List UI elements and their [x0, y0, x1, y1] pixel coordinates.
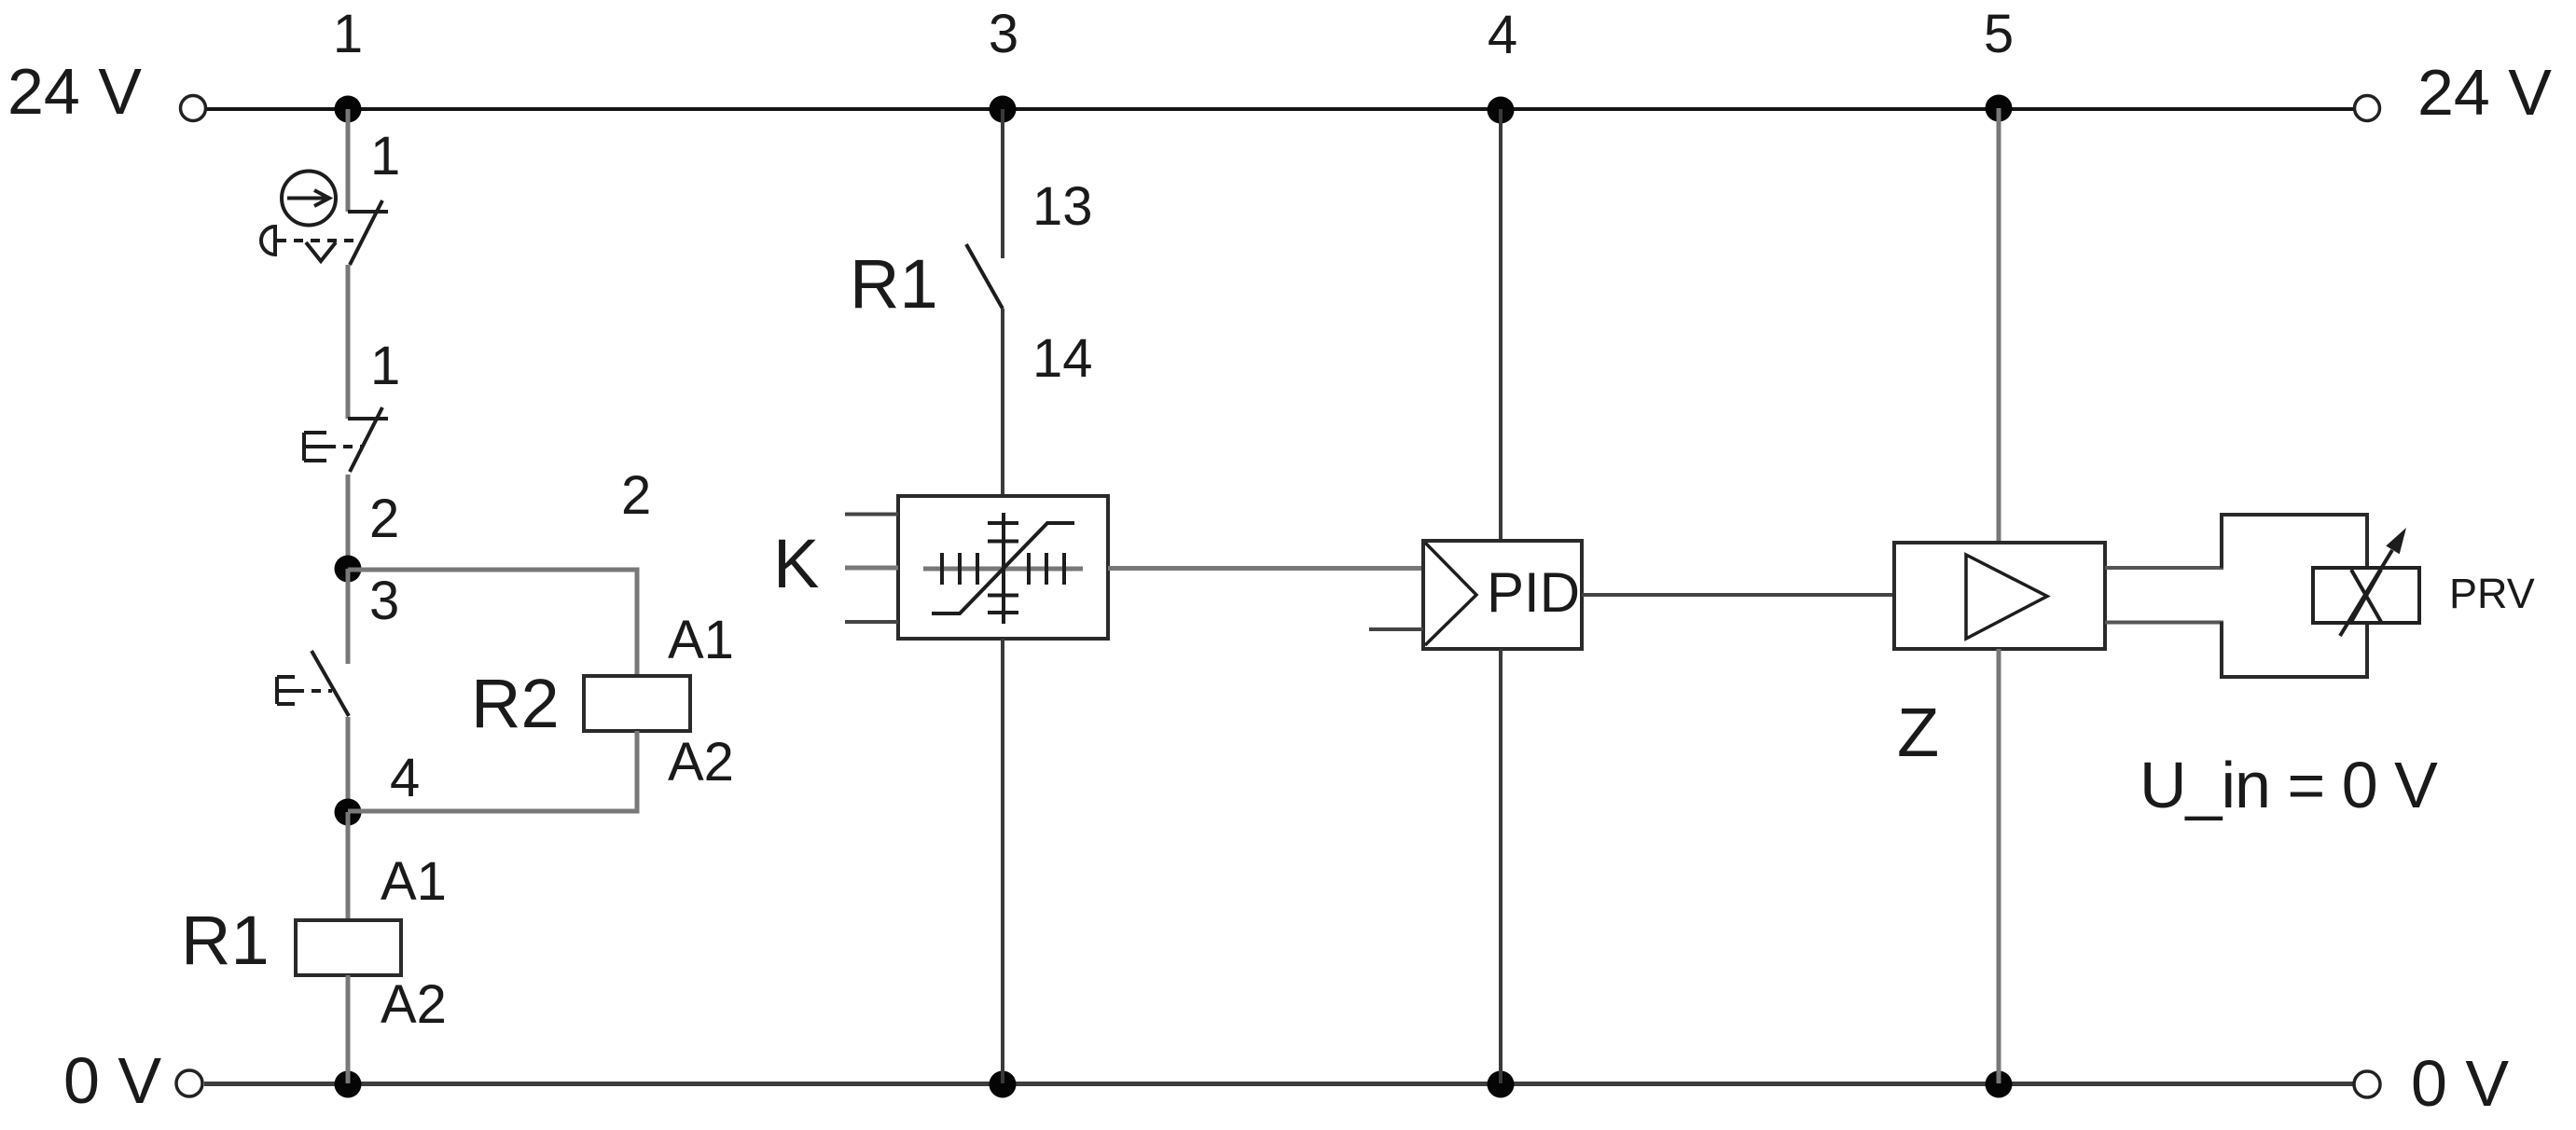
wire node 4 to PID block [1499, 109, 1503, 541]
node 2 junction dot [335, 556, 362, 583]
axis ticks right [1027, 553, 1031, 585]
moving contact blade [350, 200, 382, 265]
flow sensor arrow [287, 197, 328, 200]
moving contact blade [312, 651, 349, 716]
actuation dashed link [277, 239, 362, 242]
wire PID output to amplifier Z [1582, 593, 1894, 597]
node 4 junction dot [1488, 97, 1515, 124]
svg-text:A2: A2 [668, 732, 734, 792]
wire switch E1 to node 2 [346, 475, 351, 569]
relay contact R1 : NO [850, 176, 1093, 389]
amplifier triangle [1966, 555, 2047, 639]
terminal 0V left [176, 1070, 202, 1096]
E actuator symbol [277, 677, 295, 704]
wire node 4 to coil R1 [346, 812, 351, 920]
svg-text:R2: R2 [471, 665, 560, 742]
proportional pressure relief valve PRV [2222, 515, 2535, 677]
relay coil R2 [471, 610, 734, 792]
svg-text:U_in = 0 V: U_in = 0 V [2140, 749, 2438, 821]
diaphragm actuator half-circle [261, 227, 275, 255]
wire Z output lower [2105, 621, 2223, 625]
axis ticks lower [988, 594, 1018, 598]
ramp characteristic curve [932, 523, 1074, 613]
axis ticks upper [988, 521, 1018, 525]
svg-text:1: 1 [370, 336, 400, 396]
E actuator symbol [304, 433, 326, 461]
terminal 0V right [2354, 1071, 2380, 1097]
svg-text:13: 13 [1032, 176, 1093, 237]
svg-text:A1: A1 [668, 610, 734, 670]
amplifier block Z [1894, 543, 2105, 771]
wire block K to 0V rail [1001, 639, 1004, 1083]
svg-text:PID: PID [1487, 561, 1580, 624]
svg-text:Z: Z [1897, 694, 1939, 771]
svg-text:1: 1 [333, 4, 363, 64]
wire coil R1 to 0V rail [346, 975, 351, 1083]
wire R2 (bottom) back to node 4 [348, 731, 637, 811]
svg-text:0 V: 0 V [63, 1044, 161, 1117]
axis ticks left [940, 553, 944, 585]
manual switch E (upper) : NO contact [304, 336, 400, 472]
svg-text:A1: A1 [381, 851, 447, 912]
adjustment arrow shaft [2340, 550, 2392, 636]
wire node 5 to amplifier Z [1997, 108, 2001, 543]
0 V return rail (bottom) [204, 1082, 2353, 1086]
svg-text:14: 14 [1032, 328, 1093, 389]
graph vertical axis [1002, 513, 1005, 624]
svg-text:24 V: 24 V [7, 55, 142, 128]
svg-text:A2: A2 [381, 974, 447, 1035]
svg-text:5: 5 [1984, 4, 2014, 64]
svg-text:R1: R1 [181, 902, 270, 979]
pressure switch V : NO contact [261, 126, 400, 265]
wire K output to PID input [1108, 566, 1423, 571]
wire node 2 to switch E2 [346, 569, 351, 664]
bottom rail junction dots [335, 1071, 362, 1098]
wire pressure switch to switch E1 [346, 265, 351, 419]
setpoint ramp block K [773, 496, 1108, 639]
graph horizontal axis [923, 567, 1083, 572]
node 5 junction dot [1986, 95, 2013, 122]
input stub bottom [845, 620, 898, 624]
wire node2 branch to R2 (top) [348, 570, 637, 676]
node 1 junction dot [335, 96, 362, 123]
actuation dashed link [326, 445, 362, 448]
fixed contact tick [348, 210, 388, 214]
24 V supply rail (top) [206, 107, 2354, 111]
svg-text:R1: R1 [850, 245, 938, 323]
svg-text:PRV: PRV [2449, 570, 2535, 617]
V mark [306, 242, 336, 261]
svg-text:3: 3 [989, 4, 1018, 64]
adjustment arrow head [2386, 528, 2406, 554]
wire Z output upper [2105, 566, 2223, 570]
svg-text:24 V: 24 V [2417, 56, 2552, 129]
node 4 junction dot [335, 799, 362, 826]
input stub top [845, 513, 898, 517]
valve body box [2313, 568, 2419, 623]
svg-text:2: 2 [369, 489, 399, 549]
svg-text:K: K [773, 525, 819, 602]
fixed contact tick [348, 417, 388, 420]
svg-text:3: 3 [369, 571, 399, 631]
svg-text:4: 4 [1488, 5, 1517, 65]
svg-text:1: 1 [370, 126, 400, 186]
moving contact blade [966, 244, 1003, 309]
svg-text:4: 4 [390, 748, 420, 808]
wire contact R1 to setpoint block K [1001, 309, 1004, 496]
wire switch E2 to node 4 [346, 717, 351, 812]
wire node1 to pressure switch [346, 109, 351, 212]
valve X [2351, 570, 2381, 622]
relay coil R1 [181, 851, 447, 1035]
input stub middle [845, 566, 898, 571]
PID controller block [1369, 541, 1582, 649]
terminal 24V left [181, 96, 206, 121]
svg-text:0 V: 0 V [2411, 1047, 2509, 1120]
wire node 3 to contact R1 [1001, 109, 1004, 258]
actuation dashed link [295, 689, 332, 693]
wire amplifier Z to 0V rail [1997, 649, 2001, 1083]
moving contact blade [350, 407, 382, 472]
flow sensor circle [282, 172, 336, 226]
valve outer frame [2222, 515, 2367, 677]
node 3 junction dot [990, 96, 1017, 123]
chevron [1425, 543, 1476, 645]
wire PID block to 0V rail [1499, 649, 1503, 1083]
input stub [1369, 627, 1423, 631]
manual switch E (lower) : NO contact [277, 651, 349, 716]
terminal 24V right [2355, 96, 2380, 121]
svg-text:2: 2 [621, 465, 651, 526]
